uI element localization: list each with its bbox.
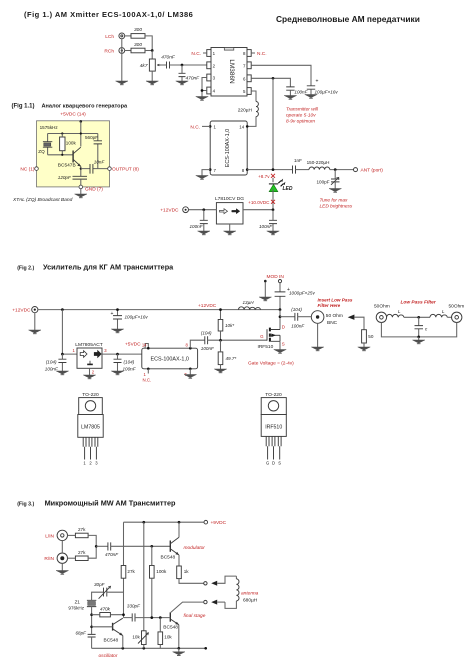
svg-text:Insert Low Pass: Insert Low Pass [318, 297, 353, 302]
svg-text:LM7805ACT: LM7805ACT [75, 342, 102, 348]
wire rail to drain [279, 310, 281, 330]
connector ANT port [354, 168, 358, 172]
svg-text:10k*: 10k* [225, 323, 234, 328]
capacitor 100uF x16v (electrolytic) [307, 79, 339, 95]
junction dot audio in [95, 545, 98, 548]
wire ECS pin8 to gate node [190, 340, 205, 348]
svg-text:(Fig 1.) AM Xmitter ECS-100AX-: (Fig 1.) AM Xmitter ECS-100AX-1,0/ LM386 [24, 10, 193, 19]
svg-text:NC (1): NC (1) [20, 167, 35, 173]
svg-text:3: 3 [104, 348, 107, 353]
svg-text:8-9v optimum: 8-9v optimum [286, 119, 315, 125]
resistor 100k [60, 134, 77, 155]
wire to junction [88, 546, 96, 558]
junction dots rail [121, 647, 207, 650]
terminal NC (1) [35, 167, 39, 171]
base wire [48, 154, 74, 156]
svg-text:N.C.: N.C. [143, 378, 152, 383]
svg-text:100nF: 100nF [123, 366, 137, 371]
wire R2 to junction [145, 50, 152, 52]
svg-text:modulator: modulator [184, 545, 206, 551]
wire to junction [88, 535, 96, 546]
svg-text:Transmitter will: Transmitter will [286, 107, 319, 113]
wire to coupling cap [96, 545, 108, 547]
wire oscillator emitter [122, 636, 124, 649]
left vertical bus (+9V to oscillator collector) [123, 522, 125, 617]
wire BNC shell to ground [317, 323, 319, 347]
svg-text:680µH: 680µH [243, 598, 258, 604]
svg-text:G: G [260, 334, 264, 339]
variable capacitor 100pF [316, 170, 339, 189]
svg-text:50 Ohm: 50 Ohm [326, 313, 343, 319]
svg-text:RCh: RCh [104, 48, 114, 54]
svg-text:330pF: 330pF [127, 603, 141, 608]
pin labels 1 2 3 [83, 461, 98, 466]
svg-text:100nF: 100nF [189, 224, 203, 229]
junction dot pin6 node [272, 77, 275, 80]
wire pot bottom to ground [151, 71, 153, 81]
wire 30pF left to crystal [92, 592, 104, 600]
svg-text:1: 1 [72, 348, 75, 353]
wire +5V down to collector [80, 121, 82, 146]
resistor 10k [158, 618, 172, 649]
transistor Q5 BC548 (oscillator) [92, 618, 123, 643]
svg-text:LED: LED [283, 186, 293, 192]
svg-text:68pF: 68pF [76, 631, 88, 636]
resistor 27k (R) [75, 550, 88, 561]
ground (100nF) [284, 96, 296, 100]
pin labels G D S [266, 461, 281, 466]
svg-text:100nF: 100nF [259, 224, 273, 229]
connector +12VDC input [32, 307, 38, 313]
oscillator module ECS-100AX-1,0 [210, 121, 247, 175]
ground (mod in) [259, 297, 271, 301]
svg-text:+5VDC (14): +5VDC (14) [60, 111, 86, 117]
junction dot 10k tap [159, 616, 162, 619]
resistor 100k (fb) [150, 546, 167, 617]
wire crystal down [91, 607, 93, 634]
ground (ECS pin7) [196, 176, 208, 180]
svg-text:300: 300 [134, 27, 142, 33]
ground (pins 3,4) [196, 97, 208, 101]
wire inductor to ECS pin14 [247, 117, 256, 127]
junction dot 100k tap [150, 545, 153, 548]
ground (7805 in cap) [56, 371, 68, 375]
capacitor 120pF [58, 175, 87, 187]
svg-text:Средневолновые АМ передатчики: Средневолновые АМ передатчики [276, 14, 420, 24]
ground (ECS pin7) [184, 375, 196, 379]
wire ECS pin1 NC [202, 125, 210, 127]
pin 7 [243, 62, 251, 69]
capacitor 1000uF x25v [275, 283, 316, 310]
crystal ZQ [38, 134, 52, 155]
trimmer 10k [132, 631, 148, 649]
ground (inputs fig3) [56, 571, 68, 575]
svg-text:120pF: 120pF [58, 175, 72, 180]
svg-text:4k7: 4k7 [140, 63, 148, 69]
junction dot 470k node [90, 613, 93, 616]
wire cap to junction and pin2 [170, 64, 208, 66]
svg-text:Tune for max: Tune for max [320, 198, 349, 204]
svg-text:XTAL (ZQ) Broadcast Band: XTAL (ZQ) Broadcast Band [12, 197, 73, 203]
svg-text:(104): (104) [46, 360, 57, 365]
pin 7 dot [209, 168, 217, 173]
wire L/IN to resistor [68, 534, 76, 536]
svg-text:L: L [398, 309, 401, 314]
Fig 1.1 section title [12, 104, 129, 110]
capacitor 100nF (104) input [45, 354, 67, 371]
connector R/IN [57, 553, 67, 563]
variable capacitor 30pF [94, 582, 111, 599]
terminal OUTPUT (8) [108, 167, 112, 171]
svg-text:ANT (port): ANT (port) [361, 168, 384, 174]
resistor 50 (dummy) [362, 330, 374, 347]
svg-text:LED brightness: LED brightness [320, 204, 353, 210]
arrow antenna top [211, 576, 236, 586]
svg-text:10k: 10k [164, 635, 172, 640]
svg-text:LM7805: LM7805 [81, 425, 100, 431]
junction dot output [272, 208, 275, 211]
svg-text:10nF: 10nF [94, 159, 106, 164]
wire pin3/pin4 to ground [202, 78, 207, 97]
svg-text:470nF: 470nF [186, 76, 201, 82]
pin 5 [243, 88, 251, 95]
pin 8 [243, 50, 251, 57]
transistor Q3 BC548 (modulator) [161, 537, 180, 560]
junction dot base node [90, 625, 93, 628]
svg-text:Микромощный MW AM Трансмиттер: Микромощный MW AM Трансмиттер [45, 498, 176, 507]
wire down to 7805 input [62, 310, 77, 355]
wire pin8 NC [251, 52, 255, 54]
svg-text:(Fig 2.): (Fig 2.) [17, 265, 34, 271]
svg-text:LCh: LCh [105, 34, 114, 40]
pin 1 dot [209, 125, 217, 130]
regulator U2 L7810CV-DG [215, 196, 244, 231]
yellow oscillator box [37, 121, 110, 187]
junction dot RF node [272, 168, 275, 171]
svg-text:560pF: 560pF [85, 135, 98, 140]
Fig 2 section title [17, 262, 174, 271]
wire L1 to C node [404, 316, 430, 318]
terminal antenna bottom [204, 600, 207, 603]
svg-text:Low Pass Filter: Low Pass Filter [401, 300, 437, 306]
main vertical supply/RF wire [272, 78, 274, 169]
svg-text:1575kHz: 1575kHz [40, 125, 59, 130]
transistor Q2 IRF510 (mosfet) [258, 328, 281, 351]
junction dot LPF gnd [417, 336, 420, 339]
svg-text:976kHz: 976kHz [68, 605, 84, 610]
wire cap to gate junction [208, 339, 267, 341]
svg-text:OUTPUT (8): OUTPUT (8) [112, 167, 139, 173]
wire modulator emitter [178, 555, 180, 566]
package LM7805 TO-220 [78, 398, 103, 460]
wire ECS pin7 to ground [202, 170, 210, 176]
svg-text:2: 2 [89, 461, 92, 466]
svg-text:IRF510: IRF510 [258, 344, 274, 350]
svg-text:100nF: 100nF [201, 346, 215, 351]
svg-text:Усилитель для КГ АМ трансмитте: Усилитель для КГ АМ трансмиттера [43, 262, 174, 271]
junction dot bus 470k [122, 613, 125, 616]
pin 1 dot [144, 368, 150, 377]
ground (shunt cap) [176, 81, 188, 85]
capacitor 100nF (reg output) [259, 210, 277, 231]
pin 14 dot [239, 125, 248, 130]
terminal GND (7) [79, 185, 83, 189]
antenna coil 680uH [225, 576, 239, 608]
svg-text:+9VDC: +9VDC [211, 520, 227, 526]
wire connectors ground [61, 541, 63, 571]
resistor R 300 (bottom) [131, 42, 145, 53]
svg-text:470nF: 470nF [105, 552, 119, 557]
svg-text:13µH: 13µH [242, 300, 254, 305]
junction dot emitter/output [80, 168, 82, 170]
svg-text:N.C.: N.C. [257, 51, 267, 57]
svg-text:Gate Voltage = (2-4v): Gate Voltage = (2-4v) [248, 360, 294, 366]
capacitor 470nF (fig3) [105, 542, 119, 556]
ground (BNC) [311, 347, 323, 351]
svg-text:50: 50 [368, 334, 374, 339]
svg-text:+10.0VDC: +10.0VDC [248, 200, 270, 205]
wire wiper to cap [161, 64, 167, 66]
wire pin6 supply [251, 78, 290, 86]
wire connector to ground [34, 313, 36, 330]
inductor 150-220uH [307, 160, 330, 169]
svg-text:BC547B: BC547B [58, 162, 76, 168]
ground (pot) [146, 81, 158, 85]
junction dot rail/10k [219, 308, 222, 311]
capacitor C (LPF) [415, 317, 429, 337]
wire R/IN to resistor [68, 557, 76, 559]
svg-text:c: c [425, 327, 428, 332]
wire cap to BNC [298, 316, 312, 318]
resistor 470k [92, 607, 124, 617]
vertical wire +9V to trimmer [143, 522, 145, 631]
wire to ground [80, 189, 82, 194]
ground (reg input cap) [198, 231, 210, 235]
svg-text:14: 14 [142, 343, 147, 348]
svg-text:G: G [266, 461, 269, 466]
pin 7 dot [184, 368, 191, 377]
svg-text:100pF: 100pF [316, 180, 329, 185]
wire 30pF right to bus [107, 591, 124, 593]
svg-text:ZQ: ZQ [38, 149, 45, 154]
svg-text:L/IN: L/IN [45, 533, 54, 539]
wire input to regulator [189, 209, 217, 211]
svg-text:N.C.: N.C. [190, 124, 200, 130]
wire to LPF ground [418, 337, 420, 340]
note tune for max [320, 198, 353, 210]
svg-text:ECS-100AX-1,0: ECS-100AX-1,0 [151, 357, 189, 363]
inductor L1 (LPF) [387, 309, 404, 317]
svg-text:27k: 27k [78, 550, 86, 555]
svg-text:final stage: final stage [184, 613, 206, 619]
svg-text:TO-220: TO-220 [82, 392, 99, 398]
terminal MOD IN gnd [264, 280, 267, 283]
svg-text:+12VDC: +12VDC [12, 308, 31, 314]
wire emitter down [80, 166, 82, 176]
svg-text:BNC: BNC [327, 320, 338, 326]
ground (inputs) [116, 81, 128, 85]
svg-text:50Ohm: 50Ohm [449, 303, 465, 309]
svg-text:MOD IN: MOD IN [267, 274, 285, 280]
junction dot rail end [279, 308, 282, 311]
op-amp U1 LM386N body [211, 48, 247, 97]
pin 2 [207, 62, 216, 69]
resistor 27k (bias) [121, 566, 135, 579]
ground (7805 out cap) [111, 371, 123, 375]
svg-text:50Ohm: 50Ohm [374, 303, 390, 309]
svg-text:+12VDC: +12VDC [198, 303, 217, 309]
junction dot [181, 64, 184, 67]
svg-text:+: + [111, 311, 114, 317]
pin 8 dot [186, 343, 192, 350]
capacitor 1nF [293, 158, 303, 174]
pin 8 dot [242, 168, 249, 173]
junction dots rail [142, 521, 145, 524]
pin 4 [207, 87, 216, 94]
svg-text:100k: 100k [156, 569, 167, 574]
svg-text:operate 5-10v: operate 5-10v [286, 113, 316, 119]
svg-text:2: 2 [92, 369, 95, 374]
junction dot pin4 [201, 89, 204, 92]
svg-text:470nF: 470nF [161, 54, 176, 60]
wire regulator output [243, 209, 273, 211]
svg-text:27k: 27k [78, 527, 86, 532]
svg-text:TO-220: TO-220 [265, 392, 282, 398]
svg-text:S: S [278, 461, 281, 466]
capacitor 100nF (104) output coupling [291, 307, 305, 328]
base wire modulator [111, 545, 171, 547]
svg-text:100nF: 100nF [45, 366, 59, 371]
LED D1 [269, 179, 286, 192]
junction dots top wire [61, 132, 63, 134]
note insert low pass [318, 297, 353, 308]
transistor Q4 BC548 (final) [163, 612, 179, 630]
capacitor 470nF (coupling, horizontal) [161, 54, 176, 68]
capacitor 100uF x16v (rail) [111, 310, 149, 329]
resistor R 300 (top) [131, 27, 145, 38]
svg-text:D: D [282, 325, 285, 330]
junction dot drain node [279, 315, 282, 318]
test point +8.7v [258, 174, 275, 179]
svg-text:100µF×16v: 100µF×16v [315, 90, 339, 95]
arrow to dummy load [348, 315, 364, 330]
svg-text:3: 3 [95, 461, 98, 466]
capacitor 68pF [76, 631, 96, 649]
arrow antenna bottom [211, 600, 225, 605]
svg-text:1: 1 [83, 461, 86, 466]
oscillator module ECS-100AX-1,0 (fig2) [142, 348, 198, 369]
capacitor 10nF [81, 159, 108, 173]
LPF bottom return wire [381, 323, 456, 337]
svg-text:(104): (104) [291, 307, 302, 312]
svg-text:1: 1 [144, 372, 147, 377]
ground (7805) [83, 375, 95, 379]
svg-text:150-220µH: 150-220µH [307, 160, 330, 165]
capacitor 470nF (shunt, vertical) [179, 65, 201, 82]
terminal antenna top [204, 582, 207, 585]
wire 1nF to inductor [296, 169, 310, 171]
connector 50Ohm (LPF in) [376, 312, 386, 322]
svg-text:+5VDC: +5VDC [125, 341, 141, 347]
wire ECS pin8 to RF node [247, 169, 292, 171]
resistor 27k (L) [75, 527, 88, 538]
svg-text:(104): (104) [124, 360, 135, 365]
wire final collector [171, 602, 204, 612]
svg-text:+8.7v: +8.7v [258, 174, 270, 179]
pin 1 [207, 50, 216, 57]
svg-text:100nF: 100nF [294, 90, 308, 95]
connector +12VDC [183, 207, 189, 213]
svg-text:Аналог кварцевого генератора: Аналог кварцевого генератора [42, 104, 129, 110]
svg-text:100nF: 100nF [291, 324, 305, 329]
junction dot gate node [219, 339, 222, 342]
svg-text:LM386N: LM386N [228, 59, 235, 84]
junction dot 7805 output [116, 353, 119, 356]
note transmitter voltage [286, 107, 319, 125]
svg-text:1k: 1k [184, 569, 190, 574]
ground (source) [274, 350, 286, 354]
ground (fig1.1) [75, 194, 87, 198]
junction dot C node [417, 316, 420, 319]
capacitor 100nF (bypass) [286, 87, 308, 96]
wire LCh to R1 [125, 35, 131, 37]
wire pin1 NC [203, 52, 207, 54]
capacitor 560pF [85, 134, 102, 169]
svg-text:L7810CV DG: L7810CV DG [215, 196, 244, 202]
terminal +5VDC [80, 120, 83, 123]
wire 7805 gnd [89, 368, 91, 375]
svg-text:14: 14 [239, 125, 244, 130]
pin 6 [243, 75, 251, 82]
svg-text:+12VDC: +12VDC [160, 208, 179, 214]
wire junction down to pot [151, 51, 153, 60]
connector LCh [119, 33, 125, 39]
svg-text:(Fig 1.1): (Fig 1.1) [12, 104, 35, 110]
connector 50Ohm (LPF out) [452, 312, 462, 322]
svg-text:49.7*: 49.7* [226, 356, 237, 361]
wire RCh to R2 [125, 50, 131, 52]
svg-text:GND (7): GND (7) [85, 186, 103, 192]
junction dot 7805 input [61, 353, 64, 356]
inner top wire [48, 133, 98, 135]
wire connectors to ground [121, 39, 123, 81]
svg-text:220µH: 220µH [238, 108, 253, 114]
wire to LED [272, 178, 274, 183]
wire modulator collector [178, 522, 180, 537]
ground (100pF) [329, 189, 341, 193]
svg-text:ECS-100AX-1,0: ECS-100AX-1,0 [225, 129, 231, 167]
package IRF510 TO-220 [261, 398, 286, 460]
wire source to ground [279, 341, 281, 349]
resistor 1k [177, 566, 190, 579]
capacitor 330pF [124, 603, 171, 621]
connector +9VDC [204, 520, 208, 524]
svg-text:oscillator: oscillator [99, 653, 118, 659]
svg-text:100µF×16v: 100µF×16v [125, 314, 149, 319]
svg-text:R/IN: R/IN [44, 556, 54, 562]
ground (100uF) [305, 95, 317, 99]
svg-text:(104): (104) [201, 331, 212, 336]
resistor 10k* [218, 310, 234, 341]
ground (input) [29, 330, 41, 334]
top supply rail fig3 [124, 521, 204, 523]
svg-text:8: 8 [186, 343, 189, 348]
junction dot ant node [334, 168, 337, 171]
inductor 220uH [238, 102, 259, 117]
capacitor 100nF (reg input) [189, 210, 207, 231]
pin 3 [207, 74, 216, 81]
svg-text:300: 300 [134, 42, 142, 48]
